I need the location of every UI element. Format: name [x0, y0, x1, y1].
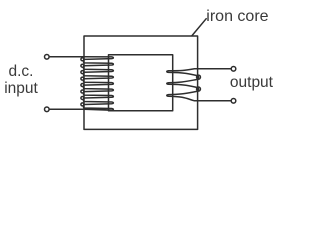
label: output	[230, 74, 273, 91]
label: iron core	[206, 8, 268, 25]
leader line to iron core label	[192, 19, 206, 36]
input terminal (bottom)	[45, 107, 50, 112]
iron core inner window rectangle	[109, 55, 173, 111]
primary winding left hooks	[81, 58, 84, 61]
primary winding with d.c. input wires	[50, 57, 114, 110]
input terminal (top)	[45, 55, 50, 60]
output terminal (bottom)	[231, 99, 236, 104]
secondary winding with output wires	[167, 69, 231, 101]
secondary winding right bulges	[197, 75, 201, 79]
iron core outer rectangle	[84, 36, 198, 129]
output terminal (top)	[231, 67, 236, 72]
label: d.c. input	[0, 63, 42, 97]
